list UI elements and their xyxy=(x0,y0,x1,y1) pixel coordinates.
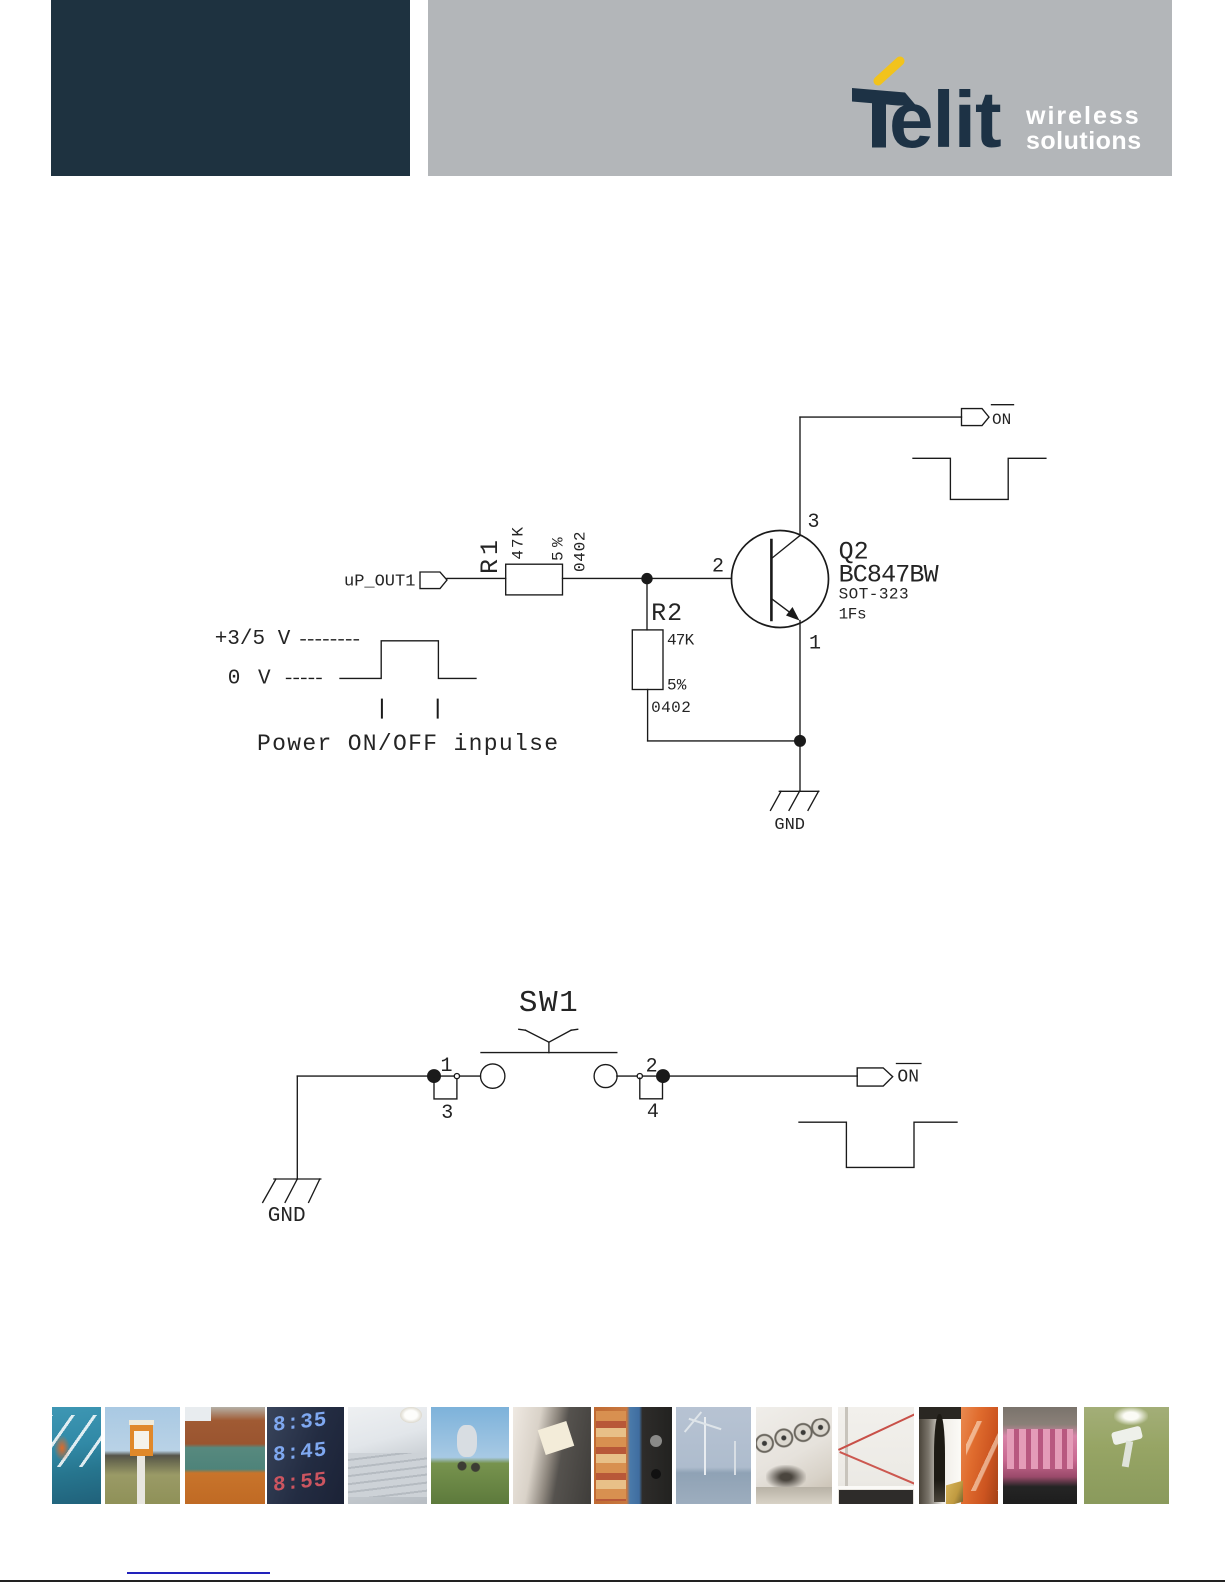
wire down to GND xyxy=(296,1076,298,1179)
header gray block xyxy=(428,0,1172,176)
photo thumbnail 9 wind turbines xyxy=(676,1407,751,1504)
svg-text:SW1: SW1 xyxy=(519,986,578,1021)
ground symbol GND (schematic 1) xyxy=(771,791,819,810)
label R2 value 47K xyxy=(667,632,695,650)
photo thumbnail 5 laptop keyboard xyxy=(348,1407,427,1504)
Telit logo xyxy=(0,0,1225,200)
footer rule xyxy=(0,1580,1225,1582)
svg-text:R1: R1 xyxy=(476,540,505,574)
svg-text:1Fs: 1Fs xyxy=(839,606,867,624)
header dark navy block xyxy=(51,0,410,176)
terminal ON (schematic 1) xyxy=(962,409,990,426)
junction node base xyxy=(641,573,652,584)
svg-text:Power ON/OFF inpulse: Power ON/OFF inpulse xyxy=(257,731,558,757)
resistor R1 xyxy=(506,564,563,595)
voltage level label +3/5 V xyxy=(215,628,291,651)
pulse width tick right xyxy=(437,700,439,718)
label R1 value 47K xyxy=(510,527,528,560)
svg-text:47K: 47K xyxy=(667,632,695,650)
svg-text:47K: 47K xyxy=(510,527,528,560)
photo strip xyxy=(0,1407,1225,1504)
svg-text:V: V xyxy=(258,667,271,690)
wire emitter down xyxy=(799,621,801,792)
pin 2 small contact circle xyxy=(637,1074,642,1079)
pulse width tick left xyxy=(381,700,383,718)
wire collector up xyxy=(799,417,801,535)
pin 1/3 tie box xyxy=(434,1078,457,1099)
wire pin 2 to ON terminal xyxy=(617,1075,857,1077)
label Q2 package SOT-323 xyxy=(839,586,909,604)
svg-text:ON: ON xyxy=(897,1068,919,1088)
pin label 3 xyxy=(441,1102,453,1125)
photo thumbnail 12 train platform xyxy=(919,1407,998,1504)
ground symbol GND (schematic 2) xyxy=(263,1179,321,1202)
svg-text:ON: ON xyxy=(992,411,1011,429)
wire GND net to pin 1 xyxy=(297,1075,480,1077)
svg-text:R2: R2 xyxy=(651,599,682,628)
svg-text:0: 0 xyxy=(228,667,241,690)
logo T-bar swoosh xyxy=(852,88,916,106)
svg-text:2: 2 xyxy=(646,1055,658,1078)
label Q2 refdes xyxy=(839,538,869,567)
wire node to R2 top xyxy=(646,579,648,630)
svg-text:4: 4 xyxy=(647,1101,659,1124)
label R2 refdes xyxy=(651,599,682,628)
svg-text:GND: GND xyxy=(268,1205,306,1228)
pin label 1 emitter xyxy=(809,633,821,656)
footnote separator blue xyxy=(127,1572,270,1574)
label R1 refdes xyxy=(476,540,505,574)
svg-text:uP_OUT1: uP_OUT1 xyxy=(344,573,415,592)
pin 1 small contact circle xyxy=(454,1074,459,1079)
transistor Q2 base bar xyxy=(770,540,773,620)
wire node to transistor base xyxy=(647,577,732,579)
net label ON with overline (schematic 2) xyxy=(897,1068,919,1088)
photo thumbnail 8 vending snacks xyxy=(594,1407,672,1504)
waveform ON pulse (schematic 2) xyxy=(799,1122,957,1167)
svg-text:5%: 5% xyxy=(667,677,687,695)
voltage level label 0 V xyxy=(228,667,271,690)
label Q2 marking 1Fs xyxy=(839,606,867,624)
pin label 4 xyxy=(647,1101,659,1124)
pin label 1 xyxy=(441,1055,453,1078)
pin 2/4 tie box xyxy=(640,1078,663,1099)
photo thumbnail 13 bottling line xyxy=(1003,1407,1077,1504)
transistor Q2 emitter stroke with arrow xyxy=(771,599,799,621)
wire R1 to base node xyxy=(563,577,648,579)
photo thumbnail 1 traffic lights xyxy=(52,1407,101,1504)
transistor Q2 circle xyxy=(732,531,829,628)
label R1 tolerance 5% xyxy=(550,537,568,561)
label R2 tolerance 5% xyxy=(667,677,687,695)
svg-text:0402: 0402 xyxy=(651,699,691,717)
ground label GND (schematic 2) xyxy=(268,1205,306,1228)
dashed level line high xyxy=(301,639,360,641)
terminal ON (schematic 2) xyxy=(857,1068,893,1086)
svg-text:5%: 5% xyxy=(550,537,568,561)
label R1 package 0402 xyxy=(572,532,590,573)
svg-text:3: 3 xyxy=(808,511,820,534)
svg-text:1: 1 xyxy=(809,633,821,656)
terminal uP_OUT1 xyxy=(420,572,447,589)
label Q2 part BC847BW xyxy=(839,560,939,589)
photo thumbnail 3 containers xyxy=(185,1407,265,1504)
svg-text:SOT-323: SOT-323 xyxy=(839,586,909,604)
waveform ON pulse (schematic 1) xyxy=(913,458,1046,499)
photo thumbnail 2 SOS field xyxy=(105,1407,181,1504)
ground label GND (schematic 1) xyxy=(774,816,805,835)
net label uP_OUT1 xyxy=(344,573,415,592)
schematic 2: SW1 push-button xyxy=(263,986,957,1228)
logo T stem xyxy=(872,93,886,148)
pin label 3 collector xyxy=(808,511,820,534)
switch SW1 right contact circle xyxy=(594,1065,617,1088)
photo thumbnail 4 timetable display xyxy=(267,1407,344,1504)
waveform input pulse xyxy=(340,641,476,679)
logo yellow accent xyxy=(878,61,900,81)
svg-text:0402: 0402 xyxy=(572,532,590,573)
resistor R2 xyxy=(632,630,663,690)
switch SW1 actuator xyxy=(519,1029,578,1052)
wire uP_OUT1 to R1 xyxy=(447,577,506,579)
svg-text:2: 2 xyxy=(712,555,724,578)
junction node pin 2 xyxy=(656,1069,670,1083)
wire R2 bottom xyxy=(647,690,649,741)
photo thumbnail 11 red wires wall xyxy=(838,1407,914,1504)
junction node emitter/R2 xyxy=(794,735,806,747)
junction node pin 1 xyxy=(427,1069,441,1083)
pin label 2 base xyxy=(712,555,724,578)
wire R2 to emitter node xyxy=(648,740,800,742)
svg-text:1: 1 xyxy=(441,1055,453,1078)
svg-text:+3/5 V: +3/5 V xyxy=(215,628,291,651)
caption Power ON/OFF inpulse xyxy=(257,731,558,757)
pin label 2 xyxy=(646,1055,658,1078)
photo thumbnail 7 ticket machine xyxy=(513,1407,591,1504)
svg-text:GND: GND xyxy=(774,816,805,835)
svg-text:3: 3 xyxy=(441,1102,453,1125)
switch SW1 bar xyxy=(481,1052,617,1054)
photo thumbnail 6 cyclist xyxy=(431,1407,509,1504)
photo thumbnail 14 security camera xyxy=(1084,1407,1169,1504)
dashed level line low xyxy=(287,677,325,679)
net label ON with overline (schematic 1) xyxy=(992,411,1011,429)
photo thumbnail 10 electricity meter xyxy=(756,1407,833,1504)
label R2 package 0402 xyxy=(651,699,691,717)
label SW1 refdes xyxy=(519,986,578,1021)
transistor Q2 collector stroke xyxy=(771,536,800,559)
switch SW1 left contact circle xyxy=(481,1064,505,1088)
wire collector to ON terminal xyxy=(800,416,962,418)
